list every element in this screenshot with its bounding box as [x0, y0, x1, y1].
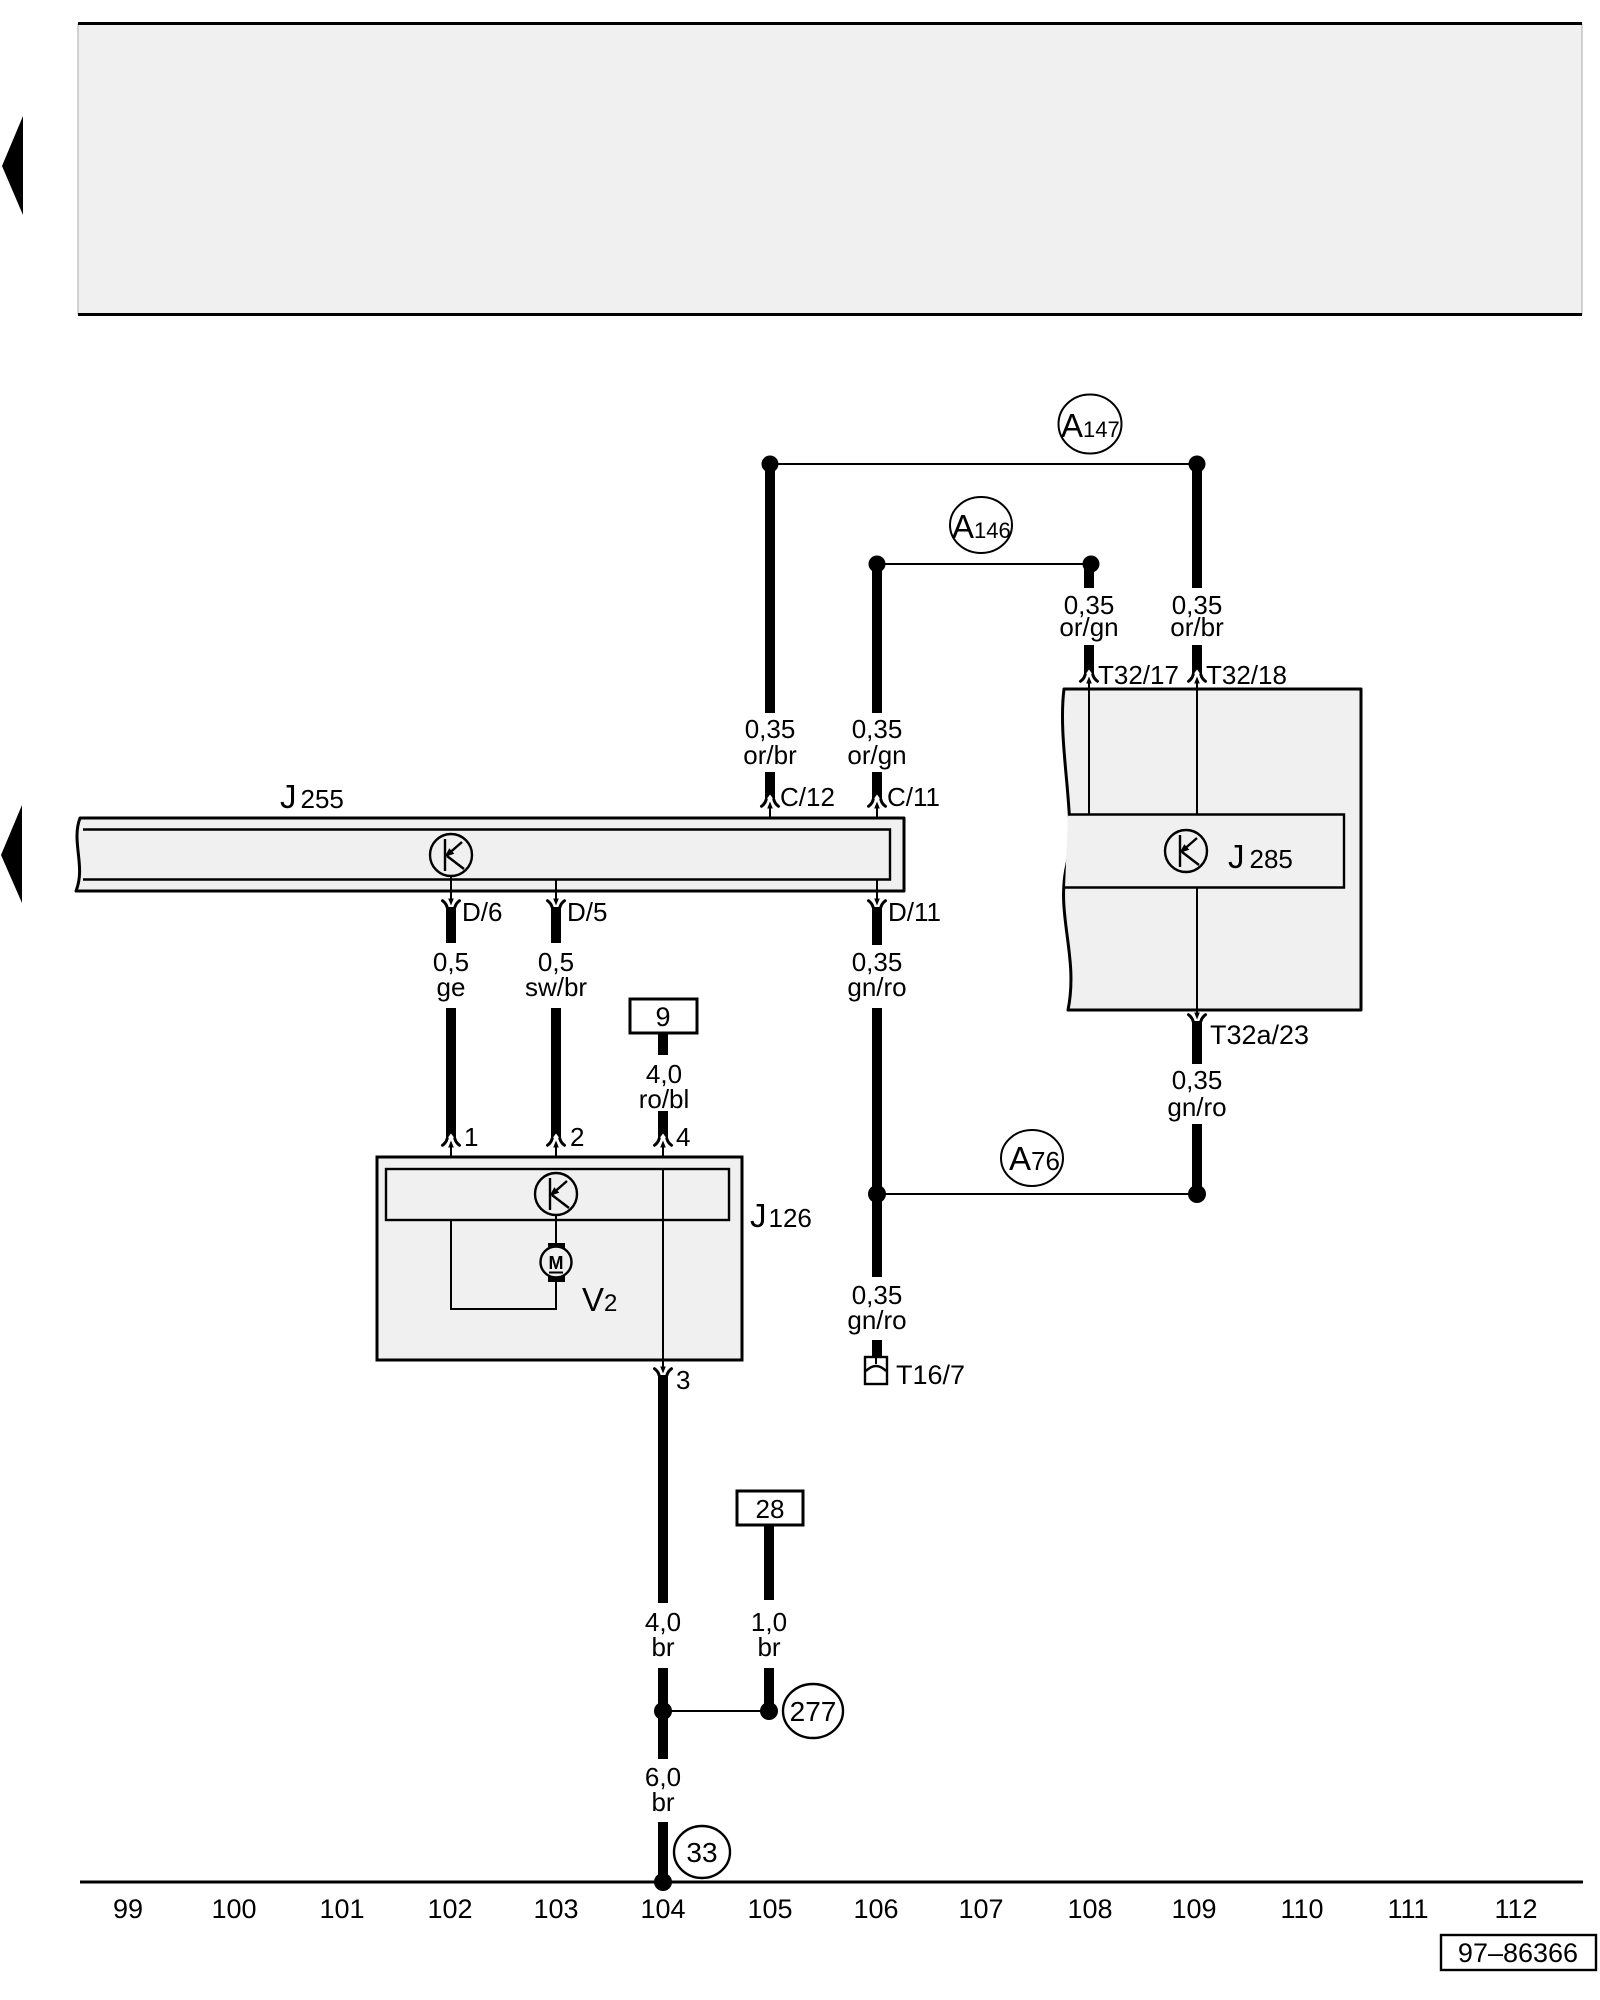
relay symbol in J126 — [535, 1173, 577, 1215]
wire 0,5 ge upper — [446, 907, 456, 943]
internal wire pin1 branch — [451, 1220, 556, 1309]
control unit with display J285 — [1062, 689, 1361, 1010]
node 33 — [674, 1826, 730, 1878]
svg-text:C/11: C/11 — [887, 782, 940, 812]
svg-text:D/5: D/5 — [567, 897, 607, 927]
svg-text:108: 108 — [1067, 1894, 1112, 1924]
wire 6,0 br lower — [658, 1822, 668, 1882]
svg-text:J126: J126 — [750, 1197, 812, 1234]
svg-text:109: 109 — [1171, 1894, 1216, 1924]
wire 0,5 sw/br lower — [551, 1008, 561, 1139]
node 277 — [783, 1684, 843, 1738]
svg-text:ro/bl: ro/bl — [639, 1084, 690, 1114]
page arrow marker middle left — [1, 805, 22, 903]
wire A146 interconnect — [877, 563, 1091, 565]
svg-text:277: 277 — [790, 1696, 837, 1727]
svg-text:111: 111 — [1387, 1894, 1428, 1924]
svg-text:A76: A76 — [1009, 1140, 1060, 1177]
svg-text:T16/7: T16/7 — [896, 1360, 965, 1390]
wire 0,35 gn/ro to junction A76 — [872, 1008, 882, 1194]
connector T32/18 — [1189, 660, 1287, 690]
svg-text:106: 106 — [853, 1894, 898, 1924]
junction A147 right — [1189, 456, 1206, 473]
svg-text:28: 28 — [756, 1494, 785, 1524]
svg-text:101: 101 — [319, 1894, 364, 1924]
wire 0,35 or/gn from A146 to T32/17 — [1084, 564, 1094, 588]
svg-text:br: br — [651, 1632, 674, 1662]
svg-text:J285: J285 — [1228, 838, 1293, 875]
svg-text:4: 4 — [676, 1122, 690, 1152]
pin 3 of J126 — [655, 1360, 691, 1395]
wire 1,0 br lower — [764, 1668, 774, 1711]
svg-text:110: 110 — [1280, 1894, 1323, 1924]
wire stub above C/11 — [872, 772, 882, 800]
svg-text:ge: ge — [437, 972, 466, 1002]
wire 4,0 ro/bl upper — [658, 1033, 668, 1055]
pin T32a/23 — [1189, 1010, 1310, 1050]
wire 1,0 br upper — [764, 1525, 774, 1600]
svg-text:99: 99 — [113, 1894, 143, 1924]
svg-text:br: br — [757, 1632, 780, 1662]
relay symbol in J285 — [1165, 830, 1207, 872]
svg-text:T32/18: T32/18 — [1206, 660, 1287, 690]
fresh air blower control unit J126 — [377, 1157, 812, 1360]
svg-text:103: 103 — [533, 1894, 578, 1924]
svg-text:33: 33 — [686, 1837, 717, 1868]
page arrow marker top left — [2, 116, 23, 215]
junction A76 left — [868, 1185, 886, 1203]
wire A76 interconnect — [877, 1193, 1197, 1195]
wire 4,0 br lower — [658, 1668, 668, 1711]
pin D/11 — [869, 880, 942, 927]
svg-text:100: 100 — [211, 1894, 256, 1924]
svg-text:2: 2 — [570, 1122, 584, 1152]
wire stub above T32/18 — [1192, 645, 1202, 675]
pin D/5 — [548, 880, 608, 927]
internal wire to T32a/23 — [1196, 888, 1198, 1010]
svg-text:105: 105 — [747, 1894, 792, 1924]
svg-text:J255: J255 — [280, 778, 344, 815]
wire 4,0 ro/bl lower — [658, 1111, 668, 1139]
svg-text:or/br: or/br — [743, 740, 797, 770]
internal wire T32/17 — [1088, 690, 1090, 814]
junction A146 left — [869, 556, 886, 573]
connector C/12 — [762, 782, 835, 829]
wire stub above T16/7 — [872, 1340, 882, 1361]
ground junction — [654, 1873, 672, 1891]
wire stub above T32/17 — [1084, 645, 1094, 675]
svg-text:D/6: D/6 — [462, 897, 502, 927]
connector T32/17 — [1081, 660, 1179, 690]
wire junction link — [663, 1710, 769, 1712]
node A146 — [950, 497, 1012, 553]
connector C/11 — [869, 782, 941, 829]
connector T16/7 — [865, 1357, 965, 1390]
terminal 28 box — [737, 1491, 803, 1525]
wire A147 interconnect — [770, 463, 1197, 465]
node A147 — [1059, 395, 1122, 454]
svg-text:gn/ro: gn/ro — [847, 1305, 906, 1335]
wire 0,35 or/gn from A146 to C/11 — [872, 564, 882, 713]
junction A76 right — [1188, 1185, 1206, 1203]
internal wire pin4 to pin3 — [662, 1169, 664, 1360]
svg-text:gn/ro: gn/ro — [1167, 1092, 1226, 1122]
junction A146 right — [1083, 556, 1100, 573]
wire 0,35 gn/ro upper (T32a/23) — [1192, 1021, 1202, 1064]
internal wire relay to motor — [555, 1214, 557, 1243]
ground rail — [80, 1881, 1583, 1884]
wire 6,0 br upper — [658, 1711, 668, 1759]
svg-text:1: 1 — [464, 1122, 478, 1152]
svg-text:C/12: C/12 — [780, 782, 835, 812]
svg-text:br: br — [651, 1787, 674, 1817]
svg-text:or/gn: or/gn — [847, 740, 906, 770]
svg-text:or/br: or/br — [1170, 612, 1224, 642]
svg-text:107: 107 — [958, 1894, 1003, 1924]
wire 0,35 gn/ro upper — [872, 907, 882, 945]
wire 0,35 or/br from A147 to T32/18 — [1192, 464, 1202, 588]
svg-text:112: 112 — [1494, 1894, 1537, 1924]
junction 277 right — [760, 1702, 778, 1720]
svg-text:97–86366: 97–86366 — [1458, 1938, 1578, 1968]
junction A147 left — [762, 456, 779, 473]
svg-text:T32/17: T32/17 — [1098, 660, 1179, 690]
svg-text:0,35: 0,35 — [1172, 1065, 1223, 1095]
pin 1 of J126 — [443, 1122, 479, 1169]
junction 277 left — [654, 1702, 672, 1720]
pin 4 of J126 — [655, 1122, 691, 1169]
wire 0,5 ge lower — [446, 1008, 456, 1139]
terminal 9 box — [630, 999, 697, 1033]
pin 2 of J126 — [548, 1122, 585, 1169]
relay symbol in J255 — [430, 834, 472, 876]
wire 4,0 br upper — [658, 1375, 668, 1603]
svg-text:102: 102 — [427, 1894, 472, 1924]
svg-text:M: M — [549, 1253, 564, 1273]
svg-text:T32a/23: T32a/23 — [1210, 1020, 1309, 1050]
svg-text:104: 104 — [640, 1894, 685, 1924]
svg-text:gn/ro: gn/ro — [847, 972, 906, 1002]
drawing number box 97-86366 — [1441, 1935, 1596, 1970]
svg-text:3: 3 — [676, 1365, 690, 1395]
svg-text:D/11: D/11 — [888, 897, 941, 927]
header panel — [78, 24, 1582, 315]
node A76 — [1001, 1130, 1063, 1186]
svg-text:or/gn: or/gn — [1059, 612, 1118, 642]
pin D/6 — [443, 876, 503, 927]
svg-text:9: 9 — [655, 1002, 670, 1032]
fresh air blower motor V2 — [541, 1243, 618, 1318]
internal wire T32/18 — [1196, 690, 1198, 814]
wire 0,35 or/br from A147 to C/12 — [765, 464, 775, 713]
wire 0,5 sw/br upper — [551, 907, 561, 943]
svg-text:sw/br: sw/br — [525, 972, 587, 1002]
wire 0,35 gn/ro to junction A76 right — [1192, 1124, 1202, 1194]
wire 0,35 gn/ro below A76 — [872, 1194, 882, 1277]
wire stub above C/12 — [765, 772, 775, 800]
control unit J255 Climatronic — [76, 778, 904, 891]
